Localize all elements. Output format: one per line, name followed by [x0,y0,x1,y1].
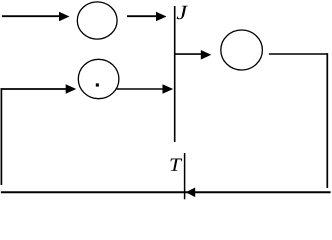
node J vertical bus wire [174,6,176,142]
circle U3 (lower multiplier with dot) [78,59,119,98]
wire: left vertical feedback riser [0,88,2,185]
wire: arrow from U1 toward node J line [127,12,167,22]
wire: input arrow into circle U1 [2,12,70,22]
wire: bottom feedback line with left arrowhead [1,188,331,198]
wire: feedback arrow into circle U3 [1,84,77,94]
circle U1 (top block) [77,2,117,39]
wire: from U2 to right side [269,53,328,55]
label J [177,6,188,20]
wire: arrow from J bus into circle U2 [175,50,211,60]
circle U2 (right block) [221,30,263,70]
wire: arrow from U3 to J bus [117,84,174,94]
label T [170,158,182,170]
node T vertical wire [184,153,186,199]
wire: right vertical drop [326,53,328,188]
dot inside U3 [96,83,99,86]
